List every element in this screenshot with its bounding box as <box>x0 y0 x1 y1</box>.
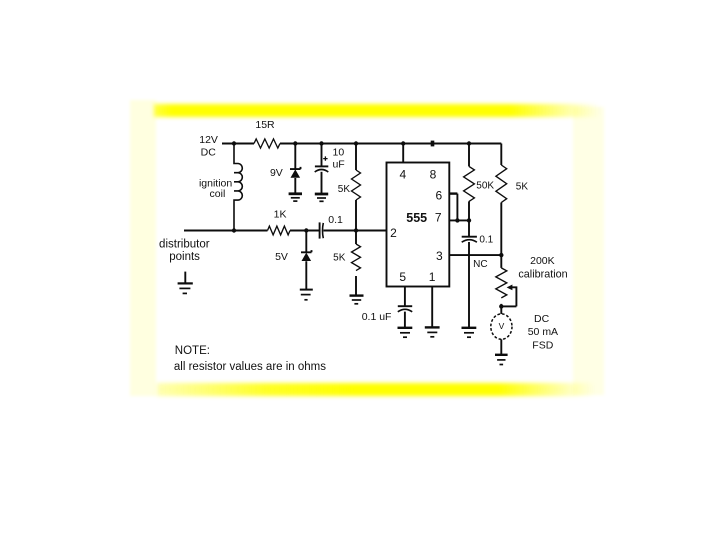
node pin3 pot junction <box>499 253 503 257</box>
wire second rail to pin2 <box>323 230 386 232</box>
wire pin4 to rail <box>402 144 404 163</box>
resistor R 5K upper <box>338 144 361 231</box>
op-amp U1 555 timer box <box>387 163 450 287</box>
pin 3 label <box>436 249 443 263</box>
ground for voltmeter <box>495 355 508 365</box>
label NC <box>473 259 487 270</box>
pin 7 label <box>435 211 442 225</box>
svg-text:0.1: 0.1 <box>328 214 343 226</box>
svg-text:5: 5 <box>399 270 406 284</box>
svg-text:50K: 50K <box>476 180 494 191</box>
svg-text:5V: 5V <box>275 251 288 263</box>
resistor R 15R <box>254 119 280 148</box>
svg-text:0.1 uF: 0.1 uF <box>362 311 392 323</box>
svg-text:8: 8 <box>430 168 437 182</box>
svg-text:9V: 9V <box>270 167 283 179</box>
svg-text:7: 7 <box>435 211 442 225</box>
wire top rail left segment <box>222 143 254 145</box>
meter M1 voltmeter <box>491 306 558 354</box>
label 12V DC supply <box>199 134 218 158</box>
wire second rail to distributor points <box>184 230 268 232</box>
node pin7 junctions <box>455 218 471 222</box>
pin 8 label <box>430 168 437 182</box>
svg-text:200K: 200K <box>530 255 555 267</box>
diode D1 zener 9V <box>270 144 301 194</box>
svg-text:all resistor values are in ohm: all resistor values are in ohms <box>174 361 326 373</box>
svg-text:1: 1 <box>429 270 436 284</box>
label distributor points <box>159 238 210 263</box>
resistor R 5K right <box>496 144 528 256</box>
svg-text:2: 2 <box>390 226 397 240</box>
svg-text:1K: 1K <box>274 208 287 220</box>
inductor L ignition coil <box>199 144 242 231</box>
svg-text:0.1: 0.1 <box>479 234 493 245</box>
svg-text:4: 4 <box>400 168 407 182</box>
wire pin1 down <box>431 287 433 328</box>
svg-text:NC: NC <box>473 259 487 270</box>
svg-text:uF: uF <box>332 159 344 171</box>
svg-text:5K: 5K <box>516 182 529 193</box>
wire pin7 stub <box>449 219 469 221</box>
svg-text:points: points <box>169 251 200 263</box>
svg-text:12V: 12V <box>199 134 218 146</box>
potentiometer R 200K calibration <box>496 255 568 307</box>
svg-text:5K: 5K <box>338 184 351 195</box>
pin 2 label <box>390 226 397 240</box>
pin 6 label <box>436 188 443 202</box>
resistor R 50K <box>464 144 495 221</box>
node top rail junctions <box>232 141 471 147</box>
svg-text:555: 555 <box>406 211 427 225</box>
ground for C3 branch <box>462 328 477 337</box>
capacitor C1 10uF polarized <box>315 144 345 194</box>
capacitor C3 0.1 <box>462 220 494 245</box>
svg-text:6: 6 <box>436 188 443 202</box>
svg-text:10: 10 <box>333 146 345 158</box>
capacitor C2 0.1 coupling <box>320 214 343 239</box>
pin 4 label <box>400 168 407 182</box>
resistor R 5K lower <box>333 231 360 296</box>
diode D2 zener 5V <box>275 231 311 290</box>
wire pin6 elbow to pin7 <box>449 194 457 221</box>
svg-text:50 mA: 50 mA <box>528 326 558 338</box>
svg-text:3: 3 <box>436 249 443 263</box>
svg-text:calibration: calibration <box>518 268 567 280</box>
svg-text:V: V <box>499 321 505 331</box>
resistor R 1K <box>268 208 291 235</box>
svg-text:distributor: distributor <box>159 238 210 250</box>
ground for 10uF <box>315 194 328 201</box>
ground for 5V zener <box>300 290 313 300</box>
ground for 5K lower <box>350 296 364 304</box>
wire top rail right segment <box>280 143 501 145</box>
svg-text:FSD: FSD <box>532 339 553 351</box>
svg-text:5K: 5K <box>333 253 346 264</box>
wire C3 to ground crossing pin3 <box>468 242 470 327</box>
ground for pin5 cap <box>398 328 413 337</box>
wire pin5 down <box>404 287 406 306</box>
pin 5 label <box>399 270 406 284</box>
note text <box>174 345 326 373</box>
wire second rail middle <box>290 230 320 232</box>
capacitor C4 0.1 uF <box>362 306 412 327</box>
wire pin3 to pot <box>449 254 501 256</box>
pin 1 label <box>429 270 436 284</box>
ground for pin1 <box>425 327 440 336</box>
node second rail junctions <box>232 228 358 232</box>
svg-text:coil: coil <box>210 188 226 200</box>
svg-text:DC: DC <box>534 313 550 325</box>
ground for 9V zener <box>289 194 302 201</box>
svg-text:DC: DC <box>201 146 217 158</box>
svg-text:15R: 15R <box>255 119 275 131</box>
ground for distributor points <box>178 272 193 294</box>
node pot bottom junction <box>499 304 503 308</box>
svg-text:NOTE:: NOTE: <box>175 345 210 357</box>
